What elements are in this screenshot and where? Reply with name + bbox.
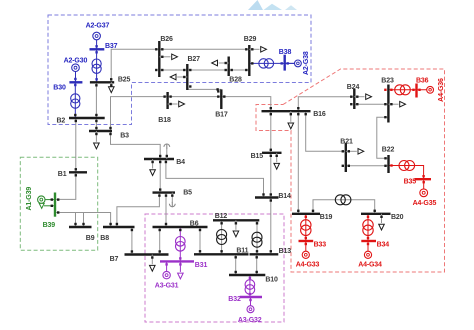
bus B16 [262, 110, 311, 112]
generator G34 [364, 251, 371, 258]
svg-text:B14: B14 [278, 193, 291, 200]
wire G37 stub [96, 40, 98, 50]
svg-text:B5: B5 [183, 190, 192, 197]
bus B32 [240, 296, 262, 298]
svg-text:B38: B38 [279, 49, 292, 56]
load arrow B31 load [178, 273, 184, 279]
node B6 joints [159, 223, 202, 231]
svg-text:B25: B25 [118, 77, 131, 84]
area A3 box [145, 214, 284, 322]
node B29 joints [245, 48, 253, 71]
wire 9-39 / 8-9 [55, 213, 111, 228]
wire 16-21 [306, 111, 346, 151]
wire 16-19 [297, 111, 299, 214]
label B6 [190, 221, 199, 228]
svg-text:B39: B39 [43, 222, 56, 229]
label B10 [265, 276, 278, 283]
node B23 xfmr joints [384, 89, 392, 91]
svg-text:B37: B37 [105, 43, 118, 50]
label B2 [57, 117, 66, 124]
wire G35 stub [423, 179, 425, 189]
area A1 box [20, 157, 97, 250]
svg-text:B35: B35 [404, 179, 417, 186]
wire 10-11 [235, 254, 237, 275]
generator G33 [302, 251, 309, 258]
node B21 joints [342, 150, 350, 167]
label B37 [105, 43, 118, 50]
node B18 joints [163, 95, 171, 105]
wire B4 shunt stem [166, 148, 168, 160]
label B17 [215, 112, 228, 119]
label A2-G38 [303, 51, 310, 75]
svg-text:B33: B33 [314, 241, 327, 248]
wire 16-15-14-13 [270, 111, 272, 254]
transformer T11-12 [217, 230, 227, 245]
area A4 box [256, 69, 445, 272]
wire 6-xfmr-31 [179, 227, 181, 261]
node B25 joints [95, 78, 112, 86]
label B20 [391, 214, 404, 221]
node B16 joints [270, 107, 307, 115]
generator G35 [420, 189, 428, 197]
wire 21-22 [346, 165, 389, 167]
label B5 [183, 190, 192, 197]
node B36 joints [412, 89, 420, 91]
wire 37-xfmr-25 [96, 49, 98, 82]
bus B26 [158, 41, 160, 77]
wire 10-xfmr-32 [249, 275, 251, 297]
label B12 [215, 213, 228, 220]
node B37 joints [95, 45, 97, 53]
svg-text:A4-G34: A4-G34 [358, 261, 382, 268]
transformer T12-13 [252, 232, 262, 247]
svg-text:B31: B31 [195, 262, 208, 269]
wire 39-9 drop b [83, 213, 85, 228]
label B23 [381, 77, 394, 84]
bus B20 [361, 213, 391, 215]
transformer T19-20 [335, 195, 351, 205]
label B24 [347, 84, 360, 91]
label B30 [53, 85, 66, 92]
node B5 joints [158, 188, 173, 196]
bus B18 [166, 92, 168, 109]
wire G31 stub [166, 261, 168, 271]
node B35 joints [422, 175, 425, 183]
label B4 [176, 159, 185, 166]
label B18 [158, 117, 171, 124]
wire 6-7 [159, 227, 161, 255]
wire 22-xfmr-35 [389, 166, 424, 180]
load arrow B16 load [288, 111, 294, 129]
bus B36 [415, 84, 417, 98]
bus B24 [353, 89, 355, 109]
svg-text:B21: B21 [340, 139, 353, 146]
wire 10-13 [256, 254, 258, 275]
node B2 joints [74, 114, 98, 122]
wire 27-17 [187, 88, 221, 90]
label A2-G30 [64, 58, 88, 65]
load arrow B23 load [388, 101, 405, 107]
node B12 joints [220, 222, 258, 224]
bus B15 [262, 152, 282, 154]
node B23 joints [384, 103, 392, 118]
label B38 [279, 49, 292, 56]
wire 6-11 [199, 227, 201, 254]
svg-text:B1: B1 [58, 171, 67, 178]
node B15 joints [270, 149, 278, 157]
bus B8 [103, 226, 135, 228]
wire 4-14 [166, 159, 264, 198]
svg-text:A1-G39: A1-G39 [26, 187, 33, 211]
wire 19-xfmr-20 [313, 200, 375, 214]
wire 23-24 [354, 103, 388, 105]
node B10 xfmr joint [249, 277, 251, 279]
svg-text:B2: B2 [57, 117, 66, 124]
generator G38 [295, 60, 302, 67]
transformer T22-35 [399, 161, 415, 171]
label B22 [382, 146, 395, 153]
load arrow B15 load [274, 153, 280, 169]
label B36 [416, 77, 429, 84]
load arrow B12 load [233, 220, 239, 237]
bus B34 [361, 240, 376, 242]
node B24 joints [350, 96, 358, 106]
load arrow B39 [39, 203, 44, 208]
bus B2 [69, 117, 105, 119]
node B34 joints [367, 237, 369, 245]
bus B38 [284, 55, 286, 71]
bus B22 [387, 155, 389, 173]
label A3-G32 [238, 317, 262, 324]
wire 2-25 [95, 82, 97, 118]
wire G39 stub [45, 199, 55, 201]
svg-text:A2-G30: A2-G30 [64, 58, 88, 65]
bus B17 [220, 89, 222, 109]
wire B38-G38 [285, 62, 295, 64]
svg-text:B27: B27 [188, 56, 201, 63]
svg-text:B8: B8 [100, 235, 109, 242]
node B27 joints [183, 69, 191, 88]
transformer T29-38 [259, 59, 274, 68]
node B4 joints [151, 155, 168, 163]
transformer T20-34 [363, 220, 373, 236]
wire 5-6 [165, 193, 167, 227]
svg-text:B29: B29 [244, 36, 257, 43]
svg-text:B4: B4 [176, 159, 185, 166]
svg-text:B32: B32 [228, 296, 241, 303]
label B11 [236, 248, 248, 255]
wire 25-26 [111, 49, 249, 82]
wire 22-23 [377, 117, 389, 158]
wire 23-xfmr-36 and G36 stub [388, 89, 426, 91]
label B13 [279, 248, 292, 255]
label B31 [195, 262, 208, 269]
label B15 [251, 153, 264, 160]
load arrow B7 load [150, 255, 156, 272]
label B27 [188, 56, 201, 63]
bus B19 [292, 213, 320, 215]
svg-text:B24: B24 [347, 84, 360, 91]
svg-text:B9: B9 [86, 235, 95, 242]
svg-text:A4-G35: A4-G35 [413, 200, 437, 207]
load arrow B26 load [159, 54, 177, 60]
shunt B5 shunt [169, 202, 175, 207]
bus B7 [125, 253, 169, 255]
load arrow B20 load [379, 214, 385, 230]
bus B1 [69, 171, 87, 173]
wire 39-9 drop a [75, 213, 77, 228]
label B32 [228, 296, 241, 303]
svg-text:B12: B12 [215, 213, 228, 220]
label B35 [404, 179, 417, 186]
node B11 joints [199, 250, 237, 258]
wire 4-5 [159, 159, 161, 193]
node B7 joints [131, 250, 161, 258]
svg-text:A4-G33: A4-G33 [296, 261, 320, 268]
label B19 [320, 214, 333, 221]
node B19 xfmr joint [305, 216, 307, 218]
label A2-G37 [86, 22, 110, 29]
label A3-G31 [155, 283, 179, 290]
bus B4 [144, 158, 174, 160]
load arrow B24 load [354, 94, 371, 100]
node B9 joints [74, 223, 84, 225]
bus B37 [90, 48, 105, 50]
label B7 [110, 256, 119, 263]
load arrow B28 load [212, 60, 229, 66]
generator G39 [38, 196, 45, 203]
generator G30 [72, 64, 80, 72]
label A4-G35 [413, 200, 437, 207]
node joint 27-17 [216, 88, 218, 90]
wire 3-18 / 17-18 / 16-17 [111, 97, 271, 131]
bus B5 [153, 191, 176, 193]
svg-text:B13: B13 [279, 248, 292, 255]
bus B25 [90, 81, 114, 83]
wire B5 shunt stem [171, 193, 173, 203]
wire 2-3 [95, 118, 97, 131]
label B21 [340, 139, 353, 146]
node B8 joints [109, 223, 133, 231]
generator G37 [93, 32, 101, 40]
transformer T2-30 [71, 94, 80, 108]
node B28 joints [225, 62, 233, 71]
label B39 [43, 222, 56, 229]
node B38 joints [281, 62, 289, 64]
transformer T6-31 [176, 237, 186, 252]
node B31 joints [165, 257, 181, 265]
svg-text:B22: B22 [382, 146, 395, 153]
node B10 joints [235, 271, 258, 273]
generator G31 [163, 271, 170, 278]
bus B12 [213, 219, 259, 221]
wire 12-xfmr-13 [256, 220, 258, 254]
load arrow B18 load [168, 101, 185, 107]
label A4-G34 [358, 261, 382, 268]
bus B33 [299, 240, 314, 242]
svg-text:B11: B11 [236, 248, 248, 255]
bus B13 [250, 253, 279, 255]
wire 19-xfmr-33 [305, 214, 307, 241]
svg-text:B30: B30 [53, 85, 66, 92]
bus B27 [186, 64, 188, 90]
node B3 joints [95, 127, 112, 135]
load arrow B3 load [94, 131, 100, 149]
generator G32 [247, 306, 254, 313]
svg-text:B36: B36 [416, 77, 429, 84]
svg-text:B23: B23 [381, 77, 394, 84]
wire G32 stub [250, 297, 252, 306]
bus B28 [227, 57, 229, 77]
node B30 joints [74, 78, 77, 86]
node B26 joints [155, 48, 163, 71]
bus B3 [89, 130, 112, 132]
label B1 [58, 171, 67, 178]
bus B30 [69, 81, 82, 83]
svg-text:B15: B15 [251, 153, 264, 160]
watermark [248, 0, 297, 10]
wire G34 stub [367, 241, 369, 251]
svg-text:B26: B26 [160, 36, 173, 43]
label A1-G39 [26, 187, 33, 211]
bus B9 [69, 226, 92, 228]
node B1 joints [75, 168, 77, 176]
wire 30-xfmr-2 [74, 82, 76, 118]
svg-text:B34: B34 [377, 241, 390, 248]
node B22 xfmr joint [390, 164, 392, 166]
node B13 joints [256, 250, 273, 258]
area A2 box [48, 15, 311, 125]
load arrow B4 load [150, 159, 156, 176]
shunt B4 shunt [164, 144, 170, 149]
svg-text:B19: B19 [320, 214, 333, 221]
node B22 joints [384, 157, 386, 167]
label B28 [229, 77, 242, 84]
node B39 joints [51, 198, 60, 213]
svg-text:B20: B20 [391, 214, 404, 221]
label B8 [100, 235, 109, 242]
wire 1-39 [55, 172, 76, 199]
svg-text:A3-G32: A3-G32 [238, 317, 262, 324]
bus B39 [54, 193, 56, 217]
wire 20-xfmr-34 [367, 214, 369, 241]
wire G33 stub [305, 241, 307, 251]
wire 16-24 [298, 97, 354, 112]
transformer T19-33 [301, 220, 311, 236]
node B25 xfmr joint [95, 78, 97, 80]
label B9 [86, 235, 95, 242]
wire 5-8 [117, 193, 159, 227]
bus B6 [153, 226, 208, 228]
bus B35 [415, 178, 432, 180]
label A4-G33 [296, 261, 320, 268]
svg-text:A2-G37: A2-G37 [86, 22, 110, 29]
svg-text:A2-G38: A2-G38 [303, 51, 310, 75]
node B20 joints [374, 210, 383, 218]
wire 11-xfmr-12 [221, 220, 223, 254]
node B14 joints [262, 193, 272, 201]
transformer T25-37 [92, 59, 101, 73]
node B32 joints [249, 293, 252, 301]
svg-text:B16: B16 [313, 111, 326, 118]
label B16 [313, 111, 326, 118]
wire B31 load stub [179, 261, 181, 272]
bus B31 [160, 260, 194, 262]
node B20 xfmr joint [367, 216, 369, 218]
load arrow B27 load [170, 74, 187, 80]
bus B11 [194, 253, 249, 255]
svg-text:B17: B17 [215, 112, 228, 119]
label B29 [244, 36, 257, 43]
svg-text:B3: B3 [120, 133, 129, 140]
svg-text:B10: B10 [265, 276, 278, 283]
bus B29 [248, 45, 250, 76]
wire 29-xfmr-38 and G38 stub [249, 62, 294, 64]
label B33 [314, 241, 327, 248]
node B19 joints [297, 210, 314, 212]
load arrow B29 load [249, 47, 266, 53]
transformer T23-36 [395, 85, 411, 95]
wire 1-2 [75, 118, 77, 172]
bus B23 [387, 85, 389, 123]
bus B14 [255, 196, 279, 198]
label B14 [278, 193, 291, 200]
wire 7-8 [131, 227, 133, 255]
transformer T10-32 [245, 280, 255, 295]
svg-text:A4-G36: A4-G36 [438, 78, 445, 102]
svg-text:B28: B28 [229, 77, 242, 84]
wire G30 stub [75, 72, 77, 83]
svg-text:B6: B6 [190, 221, 199, 228]
load arrow B25 load [109, 82, 115, 93]
wire 26-29 [159, 69, 249, 71]
svg-text:B7: B7 [110, 256, 119, 263]
label B26 [160, 36, 173, 43]
wire B39 load stub [44, 205, 55, 207]
wire 3-4 [111, 131, 161, 159]
bus B10 [229, 274, 265, 276]
label B34 [377, 241, 390, 248]
label B25 [118, 77, 131, 84]
bus B21 [345, 143, 347, 172]
generator G36 [427, 86, 434, 93]
label B3 [120, 133, 129, 140]
node B17 joints [217, 90, 225, 98]
label A4-G36 [438, 78, 445, 102]
svg-text:B18: B18 [158, 117, 171, 124]
node B33 joints [305, 237, 307, 245]
svg-text:A3-G31: A3-G31 [155, 283, 179, 290]
load arrow B21 load [346, 149, 364, 155]
